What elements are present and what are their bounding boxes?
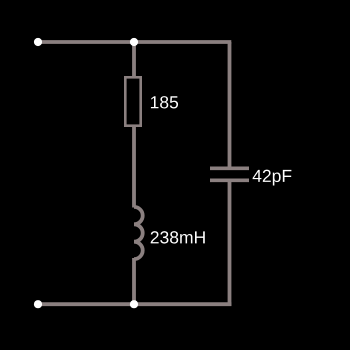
wire top horizontal xyxy=(38,40,231,44)
terminal node top-left xyxy=(34,38,42,46)
capacitor C1 top plate xyxy=(210,166,249,170)
wire between resistor and inductor xyxy=(132,125,136,208)
wire between inductor and bottom xyxy=(132,258,136,304)
junction node bottom-middle xyxy=(130,300,138,308)
wire left branch upper xyxy=(132,42,136,78)
capacitor value label 42pF xyxy=(253,170,292,186)
wire right vertical upper xyxy=(228,42,232,167)
junction node top-middle xyxy=(130,38,138,46)
inductor L1 coil xyxy=(134,207,143,259)
inductor value label 238mH xyxy=(151,231,205,243)
terminal node bottom-left xyxy=(34,300,42,308)
resistor value label 185 xyxy=(151,96,178,108)
wire bottom horizontal xyxy=(38,302,231,306)
resistor R1 body xyxy=(125,77,140,125)
capacitor C1 bottom plate xyxy=(210,178,249,182)
wire right vertical lower xyxy=(228,180,232,306)
